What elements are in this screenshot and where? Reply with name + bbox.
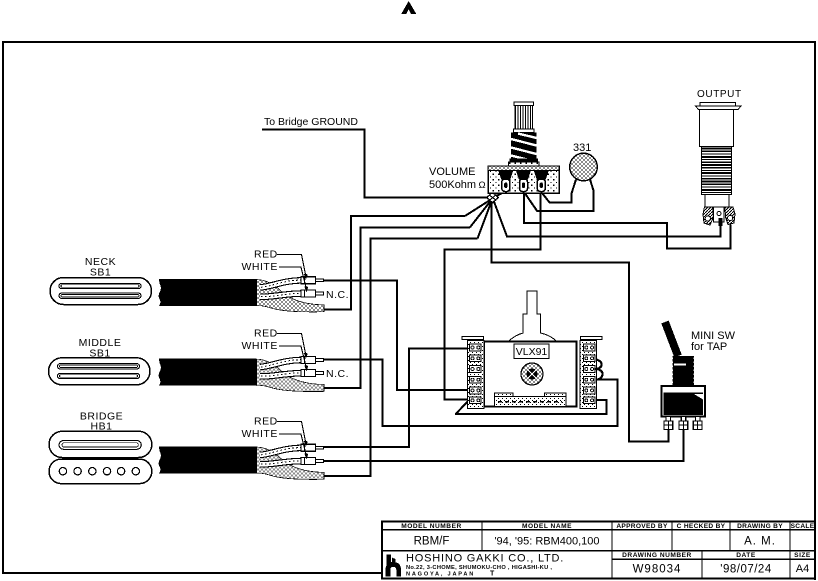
wire: pot lug2 to capacitor C1 lead: [524, 180, 594, 211]
cable: middle pickup lead: [159, 356, 324, 391]
wire: pot lug3 to capacitor C1 lead: [541, 180, 576, 203]
svg-text:W98034: W98034: [633, 564, 682, 576]
svg-text:SIZE: SIZE: [794, 552, 811, 559]
output jack J1: [696, 103, 742, 227]
svg-text:MODEL NUMBER: MODEL NUMBER: [401, 523, 461, 530]
svg-text:APPROVED BY: APPROVED BY: [616, 523, 668, 530]
svg-text:WHITE: WHITE: [242, 261, 278, 273]
title block table: [381, 521, 816, 580]
svg-text:RED: RED: [254, 249, 278, 261]
svg-text:N.C.: N.C.: [326, 289, 349, 301]
potentiometer VR1 VOLUME 500Kohm: [488, 102, 559, 193]
svg-text:SB1: SB1: [90, 267, 111, 279]
svg-text:A. M.: A. M.: [744, 536, 776, 548]
wire: ground to neck shield: [465, 199, 493, 217]
cable: bridge pickup lead: [159, 444, 324, 479]
svg-text:for TAP: for TAP: [691, 341, 727, 353]
wire: bridge ground lead: [262, 129, 366, 131]
svg-text:500Kohm: 500Kohm: [429, 179, 476, 191]
svg-text:HOSHINO GAKKI CO., LTD.: HOSHINO GAKKI CO., LTD.: [406, 552, 564, 564]
wire: middle red to selector switch R4: [323, 358, 383, 360]
wire: pot lug3 to selector switch L6: [540, 192, 542, 251]
svg-text:NAGOYA, JAPAN: NAGOYA, JAPAN: [406, 572, 475, 578]
svg-text:SCALE: SCALE: [791, 523, 815, 530]
svg-text:'98/07/24: '98/07/24: [720, 564, 772, 576]
selector switch SW1 VLX91: [462, 291, 603, 409]
wire: ground to bridge shield: [478, 199, 493, 239]
svg-text:VLX91: VLX91: [516, 346, 548, 358]
wire: ground to mini switch terminal 1: [491, 199, 493, 263]
svg-text:WHITE: WHITE: [242, 428, 278, 440]
svg-text:RED: RED: [254, 328, 278, 340]
cable: neck pickup lead: [159, 277, 324, 312]
wire: jumper selector L6 to R6 under switch: [596, 399, 607, 401]
revision marker triangle: [401, 1, 416, 14]
wire: bridge white to mini switch terminal 2: [323, 460, 684, 462]
wire: neck red to selector switch L5: [324, 279, 398, 281]
wire: pot lug1 to ground junction: [493, 192, 506, 198]
svg-text:'94, '95: RBM400,100: '94, '95: RBM400,100: [494, 536, 599, 548]
wire: ground to middle shield: [470, 199, 493, 228]
wire: ground to output jack sleeve: [493, 199, 507, 237]
svg-text:N.C.: N.C.: [326, 368, 349, 380]
svg-text:OUTPUT: OUTPUT: [697, 89, 742, 100]
svg-text:RED: RED: [254, 416, 278, 428]
svg-text:C HECKED BY: C HECKED BY: [677, 523, 726, 530]
wire: pot lug2 to output jack tip: [523, 192, 525, 224]
svg-text:DATE: DATE: [736, 552, 756, 559]
node: ground junction at volume pot: [487, 192, 498, 203]
logo: Hoshino h mark: [386, 555, 402, 577]
svg-text:WHITE: WHITE: [242, 340, 278, 352]
svg-text:T: T: [490, 571, 495, 578]
svg-text:331: 331: [573, 142, 591, 154]
wire: bridge red to selector switch L1: [324, 446, 410, 448]
svg-text:DRAWING BY: DRAWING BY: [737, 523, 783, 530]
capacitor C1 331: [570, 153, 598, 181]
svg-text:MODEL NAME: MODEL NAME: [522, 523, 572, 530]
svg-text:No.22, 3-CHOME, SHUMOKU-CHO ,: No.22, 3-CHOME, SHUMOKU-CHO , HIGASHI-KU…: [406, 565, 552, 571]
mini toggle switch SW2: [661, 321, 705, 430]
svg-text:DRAWING NUMBER: DRAWING NUMBER: [622, 552, 692, 559]
svg-text:A4: A4: [796, 563, 809, 575]
svg-text:Ω: Ω: [479, 180, 486, 191]
svg-text:RBM/F: RBM/F: [414, 536, 450, 548]
svg-text:To Bridge GROUND: To Bridge GROUND: [264, 116, 358, 128]
svg-text:VOLUME: VOLUME: [429, 166, 475, 178]
